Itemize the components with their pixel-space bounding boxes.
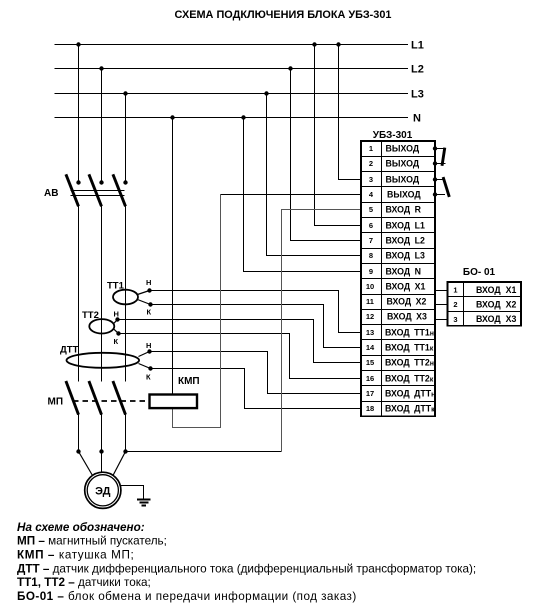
svg-text:К: К [147,308,152,317]
svg-text:ДТТ: ДТТ [60,345,79,356]
svg-text:ВЫХОД: ВЫХОД [386,159,420,169]
svg-text:СХЕМА ПОДКЛЮЧЕНИЯ БЛОКА УБЗ-30: СХЕМА ПОДКЛЮЧЕНИЯ БЛОКА УБЗ-301 [175,9,392,21]
svg-text:ВХОД X2: ВХОД X2 [387,297,427,307]
svg-text:ВХОД ТТ1к: ВХОД ТТ1к [385,343,434,353]
svg-text:3: 3 [453,315,457,324]
svg-text:ВХОД N: ВХОД N [386,267,421,277]
svg-text:БО- 01: БО- 01 [463,267,496,278]
svg-text:L1: L1 [411,40,424,52]
svg-text:3: 3 [369,175,373,184]
svg-text:На схеме обозначено:: На схеме обозначено: [17,521,145,534]
svg-text:ВХОД ДТТк: ВХОД ДТТк [385,404,435,414]
svg-text:2: 2 [369,159,373,168]
svg-text:ВЫХОД: ВЫХОД [386,175,420,185]
svg-text:Н: Н [146,341,151,350]
svg-text:15: 15 [366,358,374,367]
svg-text:Н: Н [146,278,151,287]
svg-text:1: 1 [453,286,457,295]
svg-text:ЭД: ЭД [95,485,111,497]
svg-text:ВХОД L1: ВХОД L1 [386,221,425,231]
svg-text:N: N [413,113,421,125]
svg-text:8: 8 [369,251,373,260]
svg-text:КМП: КМП [178,376,200,387]
svg-text:10: 10 [366,282,374,291]
svg-text:12: 12 [366,312,374,321]
svg-text:КМП – катушка МП;: КМП – катушка МП; [17,549,134,562]
svg-text:ВХОД ДТТн: ВХОД ДТТн [385,389,435,399]
svg-text:Н: Н [114,310,119,319]
svg-text:К: К [146,373,151,382]
svg-text:ТТ2: ТТ2 [82,310,99,321]
svg-text:ТТ1: ТТ1 [107,281,125,292]
svg-text:5: 5 [369,205,373,214]
svg-text:ВХОД ТТ1н: ВХОД ТТ1н [385,328,434,338]
svg-text:ТТ1, ТТ2 – датчики тока;: ТТ1, ТТ2 – датчики тока; [17,576,151,589]
svg-text:7: 7 [369,236,373,245]
svg-text:К: К [114,337,119,346]
svg-text:6: 6 [369,221,373,230]
svg-text:МП: МП [48,397,64,408]
svg-text:ВХОД L3: ВХОД L3 [386,251,425,261]
svg-text:11: 11 [366,297,374,306]
svg-text:ДТТ – датчик дифференциального: ДТТ – датчик дифференциального тока (диф… [17,563,476,576]
svg-text:18: 18 [366,404,374,413]
svg-text:L2: L2 [411,64,424,76]
svg-text:БО-01 – блок обмена и передачи: БО-01 – блок обмена и передачи информаци… [17,590,357,603]
svg-text:14: 14 [366,343,375,352]
svg-text:ВХОД X2: ВХОД X2 [476,300,516,310]
svg-text:13: 13 [366,328,374,337]
svg-text:ВХОД ТТ2н: ВХОД ТТ2н [385,358,434,368]
svg-text:ВХОД X1: ВХОД X1 [386,282,426,292]
svg-text:ВХОД X3: ВХОД X3 [476,314,516,324]
svg-text:ВХОД R: ВХОД R [386,205,422,215]
svg-text:16: 16 [366,374,374,383]
svg-text:ВЫХОД: ВЫХОД [387,190,421,200]
svg-text:УБЗ-301: УБЗ-301 [373,130,413,141]
svg-text:17: 17 [366,389,374,398]
svg-text:1: 1 [369,144,373,153]
svg-text:9: 9 [369,267,373,276]
svg-text:МП – магнитный пускатель;: МП – магнитный пускатель; [17,535,167,548]
svg-text:ВХОД ТТ2к: ВХОД ТТ2к [385,374,434,384]
svg-text:ВЫХОД: ВЫХОД [386,144,420,154]
svg-text:ВХОД X3: ВХОД X3 [387,312,427,322]
svg-text:АВ: АВ [44,188,58,199]
svg-text:ВХОД L2: ВХОД L2 [386,236,425,246]
svg-text:L3: L3 [411,89,424,101]
svg-text:2: 2 [453,300,457,309]
svg-text:ВХОД X1: ВХОД X1 [476,285,516,295]
